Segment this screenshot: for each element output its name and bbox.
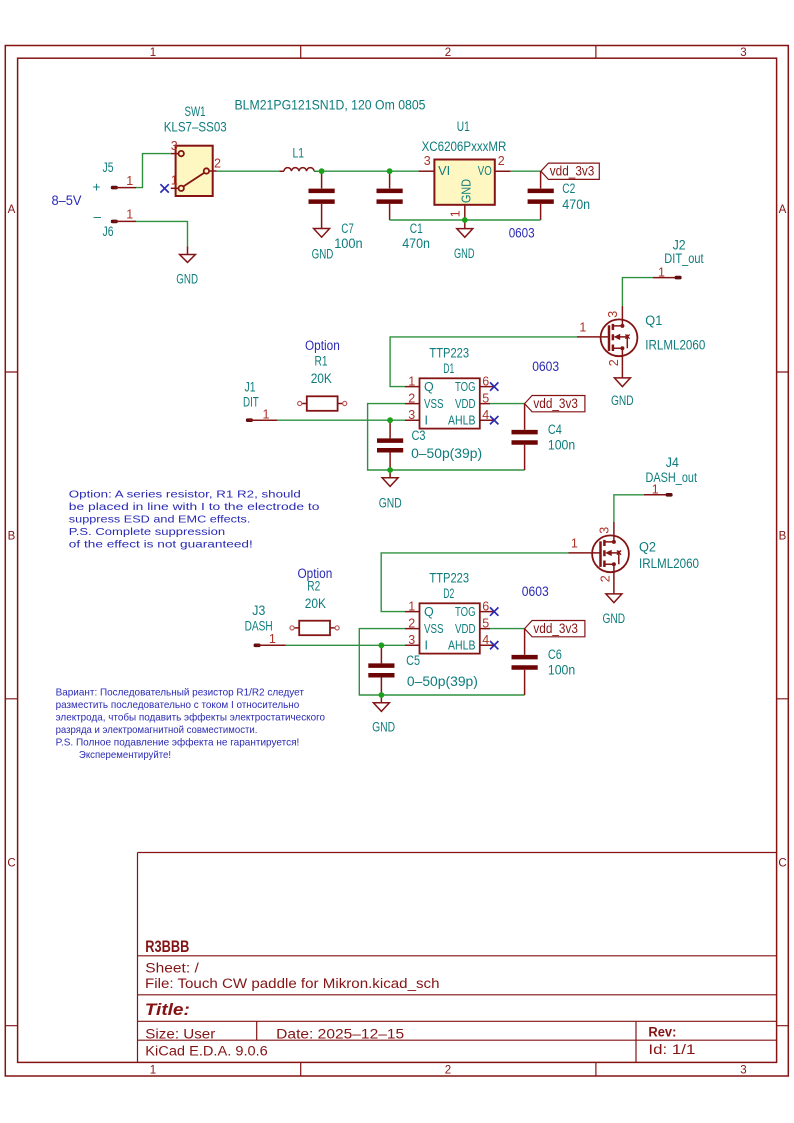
svg-text:P.S. Complete suppression: P.S. Complete suppression xyxy=(69,526,225,538)
svg-text:VDD: VDD xyxy=(455,622,476,636)
svg-text:Вариант: Последовательный рези: Вариант: Последовательный резистор R1/R2… xyxy=(56,686,304,698)
capacitor C7 xyxy=(309,171,363,251)
svg-text:0603: 0603 xyxy=(509,226,535,241)
svg-text:IRLML2060: IRLML2060 xyxy=(639,556,699,571)
wire J5 to SW1 pin3 xyxy=(136,154,171,188)
junction U1 GND xyxy=(462,217,468,223)
svg-text:2: 2 xyxy=(599,575,613,582)
svg-text:VI: VI xyxy=(438,164,450,178)
svg-text:R2: R2 xyxy=(307,579,320,594)
svg-text:Size: User: Size: User xyxy=(145,1026,216,1041)
svg-text:470n: 470n xyxy=(562,197,590,212)
svg-text:3: 3 xyxy=(740,1064,746,1076)
svg-text:vdd_3v3: vdd_3v3 xyxy=(533,621,578,636)
svg-text:A: A xyxy=(779,204,787,216)
wire D1 Q to Q1 gate xyxy=(390,337,577,387)
svg-text:100n: 100n xyxy=(548,437,575,452)
inductor L1 xyxy=(280,145,319,171)
wire D2 Q to Q2 gate xyxy=(381,553,568,612)
svg-text:C: C xyxy=(7,857,15,869)
ground below J6 xyxy=(176,246,198,286)
svg-text:2: 2 xyxy=(498,154,505,168)
svg-text:DIT_out: DIT_out xyxy=(664,251,703,266)
svg-text:5: 5 xyxy=(482,391,489,405)
junction C3 top xyxy=(387,417,393,423)
svg-text:C1: C1 xyxy=(410,221,423,236)
svg-text:2: 2 xyxy=(445,1064,451,1076)
svg-text:VSS: VSS xyxy=(424,397,444,411)
svg-text:1: 1 xyxy=(150,1064,156,1076)
svg-text:TTP223: TTP223 xyxy=(429,571,469,586)
junction C5 bottom xyxy=(379,692,385,698)
capacitor C6 xyxy=(512,629,576,695)
ground below C3 xyxy=(379,470,402,511)
svg-text:5: 5 xyxy=(482,616,489,630)
svg-text:C7: C7 xyxy=(341,221,354,236)
svg-text:8–5V: 8–5V xyxy=(52,193,82,208)
wire D2 VSS to gnd bus xyxy=(359,629,405,695)
wire D2 VDD to vdd label xyxy=(490,628,525,630)
svg-text:GND: GND xyxy=(611,393,634,408)
svg-text:C2: C2 xyxy=(562,181,575,196)
svg-text:GND: GND xyxy=(312,247,334,262)
wire L1 to U1 pin3 xyxy=(314,170,419,172)
svg-text:1: 1 xyxy=(126,208,133,222)
svg-text:B: B xyxy=(8,531,16,543)
svg-text:VSS: VSS xyxy=(424,622,444,636)
wire D1 VSS to gnd bus xyxy=(368,404,405,470)
svg-text:20K: 20K xyxy=(305,596,326,611)
ground below C5 xyxy=(372,695,395,735)
svg-text:KLS7–SS03: KLS7–SS03 xyxy=(164,119,227,134)
svg-text:R1: R1 xyxy=(315,354,328,369)
connector J6 xyxy=(103,208,137,240)
wire J4 to Q2 drain xyxy=(614,495,644,522)
capacitor C2 xyxy=(528,171,591,220)
connector J2 xyxy=(653,238,704,280)
wire J3 to D2 pin I xyxy=(286,644,405,646)
note english option text xyxy=(69,488,320,550)
svg-text:3: 3 xyxy=(740,47,746,59)
svg-text:20K: 20K xyxy=(311,371,332,386)
wire gnd bus to C6 xyxy=(381,694,524,696)
svg-text:0603: 0603 xyxy=(532,359,559,374)
svg-text:Option: A series resistor, R1: Option: A series resistor, R1 R2, should xyxy=(69,488,301,500)
connector J4 xyxy=(644,455,697,497)
svg-text:GND: GND xyxy=(372,720,395,735)
svg-text:AHLB: AHLB xyxy=(448,639,476,653)
svg-text:470n: 470n xyxy=(402,236,430,251)
IC D2 TTP223 xyxy=(405,571,494,654)
svg-text:0–50p(39p): 0–50p(39p) xyxy=(411,446,482,461)
power label vdd_3v3 D2 xyxy=(525,621,585,637)
svg-text:Sheet: /: Sheet: / xyxy=(145,960,199,975)
no-connect X on D1 AHLB xyxy=(490,416,498,424)
ground below C7 xyxy=(312,229,334,262)
svg-text:1: 1 xyxy=(571,537,578,551)
no-connect X on D1 TOG xyxy=(490,382,498,390)
svg-text:4: 4 xyxy=(482,633,489,647)
junction C3 bottom xyxy=(387,467,393,473)
connector J3 xyxy=(245,603,286,647)
svg-text:Q1: Q1 xyxy=(645,313,662,328)
svg-text:File: Touch CW paddle for Mikr: File: Touch CW paddle for Mikron.kicad_s… xyxy=(145,976,440,991)
wire SW1 pin2 to L1 xyxy=(217,170,284,172)
svg-text:3: 3 xyxy=(408,633,415,647)
svg-text:Rev:: Rev: xyxy=(648,1024,676,1039)
svg-text:SW1: SW1 xyxy=(185,104,206,119)
ground below Q2 xyxy=(603,594,626,626)
svg-text:GND: GND xyxy=(176,272,198,287)
wire J1 to D1 pin I xyxy=(277,419,405,421)
svg-text:DIT: DIT xyxy=(243,395,259,410)
transistor Q2 xyxy=(569,522,700,594)
no-connect X on SW1 pin1 xyxy=(160,184,168,192)
svg-text:3: 3 xyxy=(408,408,415,422)
svg-text:2: 2 xyxy=(408,616,415,630)
svg-text:P.S. Полное подавление эффекта: P.S. Полное подавление эффекта не гарант… xyxy=(56,736,300,748)
connector J5 xyxy=(103,160,137,189)
svg-text:Q2: Q2 xyxy=(639,540,656,555)
svg-text:2: 2 xyxy=(214,157,221,171)
zone column ticks xyxy=(301,46,596,1077)
svg-text:C6: C6 xyxy=(548,647,562,662)
svg-text:3: 3 xyxy=(171,139,178,153)
connector J1 xyxy=(243,380,277,422)
svg-text:vdd_3v3: vdd_3v3 xyxy=(533,396,578,411)
svg-text:6: 6 xyxy=(482,599,489,613)
svg-text:1: 1 xyxy=(171,173,178,187)
svg-text:6: 6 xyxy=(482,374,489,388)
svg-text:suppress ESD and EMC effects.: suppress ESD and EMC effects. xyxy=(69,513,251,525)
svg-text:J6: J6 xyxy=(103,224,114,239)
svg-text:Id: 1/1: Id: 1/1 xyxy=(648,1042,695,1057)
svg-text:C: C xyxy=(778,857,786,869)
svg-text:разместить последовательно с т: разместить последовательно с током I отн… xyxy=(56,699,300,711)
svg-text:D2: D2 xyxy=(443,586,454,601)
wire J2 to Q1 drain xyxy=(622,278,653,306)
svg-text:VO: VO xyxy=(478,164,492,178)
svg-text:4: 4 xyxy=(482,408,489,422)
svg-text:GND: GND xyxy=(603,611,626,626)
svg-text:2: 2 xyxy=(607,359,621,366)
switch SW1 xyxy=(164,104,227,196)
ground below Q1 xyxy=(611,378,634,408)
svg-text:XC6206PxxxMR: XC6206PxxxMR xyxy=(422,139,507,154)
svg-text:1: 1 xyxy=(449,210,463,217)
title block xyxy=(138,853,777,1063)
svg-text:TTP223: TTP223 xyxy=(429,346,469,361)
svg-text:J1: J1 xyxy=(245,380,256,395)
svg-text:Date: 2025–12–15: Date: 2025–12–15 xyxy=(276,1026,404,1041)
wire J6 to GND xyxy=(136,221,188,246)
svg-text:VDD: VDD xyxy=(455,397,476,411)
svg-text:GND: GND xyxy=(454,246,475,261)
svg-text:1: 1 xyxy=(126,174,133,188)
note russian option text xyxy=(56,686,326,761)
capacitor C4 xyxy=(512,404,576,470)
svg-text:100n: 100n xyxy=(548,662,575,677)
wire gnd bus under U1 xyxy=(390,219,541,221)
svg-text:3: 3 xyxy=(597,527,611,534)
svg-text:D1: D1 xyxy=(443,361,454,376)
resistor R2 xyxy=(290,579,339,636)
svg-text:2: 2 xyxy=(408,391,415,405)
capacitor C1 xyxy=(377,171,431,251)
zone row ticks xyxy=(5,372,788,1026)
ground below U1 xyxy=(454,220,475,261)
svg-text:J4: J4 xyxy=(666,455,679,470)
svg-text:100n: 100n xyxy=(334,236,363,251)
svg-text:Эксперементируйте!: Эксперементируйте! xyxy=(79,749,171,761)
svg-text:IRLML2060: IRLML2060 xyxy=(645,338,705,353)
transistor Q1 xyxy=(577,306,705,378)
svg-text:1: 1 xyxy=(408,599,415,613)
svg-text:C5: C5 xyxy=(406,653,420,668)
svg-text:Q: Q xyxy=(424,380,434,394)
svg-text:C4: C4 xyxy=(548,422,562,437)
svg-text:L1: L1 xyxy=(293,145,305,160)
wire gnd bus to C4 xyxy=(390,469,524,471)
svg-text:I: I xyxy=(425,639,428,653)
svg-text:1: 1 xyxy=(269,632,276,646)
no-connect X on D2 TOG xyxy=(490,607,498,615)
svg-text:J3: J3 xyxy=(252,603,265,618)
junction C5 top xyxy=(379,642,385,648)
wire D1 VDD to vdd label xyxy=(490,403,525,405)
svg-text:Q: Q xyxy=(424,605,434,619)
svg-text:BLM21PG121SN1D, 120 Om 0805: BLM21PG121SN1D, 120 Om 0805 xyxy=(235,97,426,112)
svg-text:GND: GND xyxy=(459,179,473,203)
svg-text:2: 2 xyxy=(445,47,451,59)
svg-text:AHLB: AHLB xyxy=(448,414,476,428)
svg-text:TOG: TOG xyxy=(455,605,476,619)
svg-text:KiCad E.D.A. 9.0.6: KiCad E.D.A. 9.0.6 xyxy=(145,1044,267,1059)
svg-text:A: A xyxy=(8,204,16,216)
svg-text:1: 1 xyxy=(579,321,586,335)
svg-text:разряда и электромагнитной сов: разряда и электромагнитной совместимости… xyxy=(56,724,258,736)
svg-text:B: B xyxy=(779,531,787,543)
svg-text:C3: C3 xyxy=(412,428,426,443)
svg-text:I: I xyxy=(425,414,428,428)
svg-text:GND: GND xyxy=(379,496,402,511)
svg-text:+: + xyxy=(93,180,101,195)
svg-text:be placed in line with I to th: be placed in line with I to the electrod… xyxy=(69,501,320,513)
svg-text:1: 1 xyxy=(408,374,415,388)
svg-text:0603: 0603 xyxy=(522,584,549,599)
svg-text:R3BBB: R3BBB xyxy=(145,938,189,956)
svg-text:3: 3 xyxy=(606,311,620,318)
regulator U1 xyxy=(419,119,511,220)
svg-text:3: 3 xyxy=(424,154,431,168)
svg-text:Option: Option xyxy=(305,338,340,353)
power label vdd_3v3 D1 xyxy=(525,396,585,412)
svg-text:Title:: Title: xyxy=(145,1001,190,1019)
no-connect X on D2 AHLB xyxy=(490,641,498,649)
svg-text:of the effect is not guarantee: of the effect is not guaranteed! xyxy=(69,539,253,551)
capacitor C3 xyxy=(377,420,482,470)
svg-text:0–50p(39p): 0–50p(39p) xyxy=(407,674,478,689)
svg-text:U1: U1 xyxy=(457,119,470,134)
wire U1 pin2 to vdd label xyxy=(511,170,541,172)
capacitor C5 xyxy=(368,645,478,695)
power label vdd_3v3 xyxy=(541,163,599,179)
junction C1 top xyxy=(387,168,393,174)
resistor R1 xyxy=(298,354,347,411)
svg-text:vdd_3v3: vdd_3v3 xyxy=(550,164,595,179)
svg-text:TOG: TOG xyxy=(455,380,476,394)
svg-text:–: – xyxy=(94,209,102,224)
junction L1-C7 xyxy=(319,168,325,174)
svg-text:1: 1 xyxy=(150,47,156,59)
title block texts xyxy=(145,938,696,1059)
IC D1 TTP223 xyxy=(405,346,494,429)
svg-text:электрода, чтобы подавить эффе: электрода, чтобы подавить эффекты электр… xyxy=(56,711,326,723)
svg-text:J5: J5 xyxy=(103,160,114,175)
